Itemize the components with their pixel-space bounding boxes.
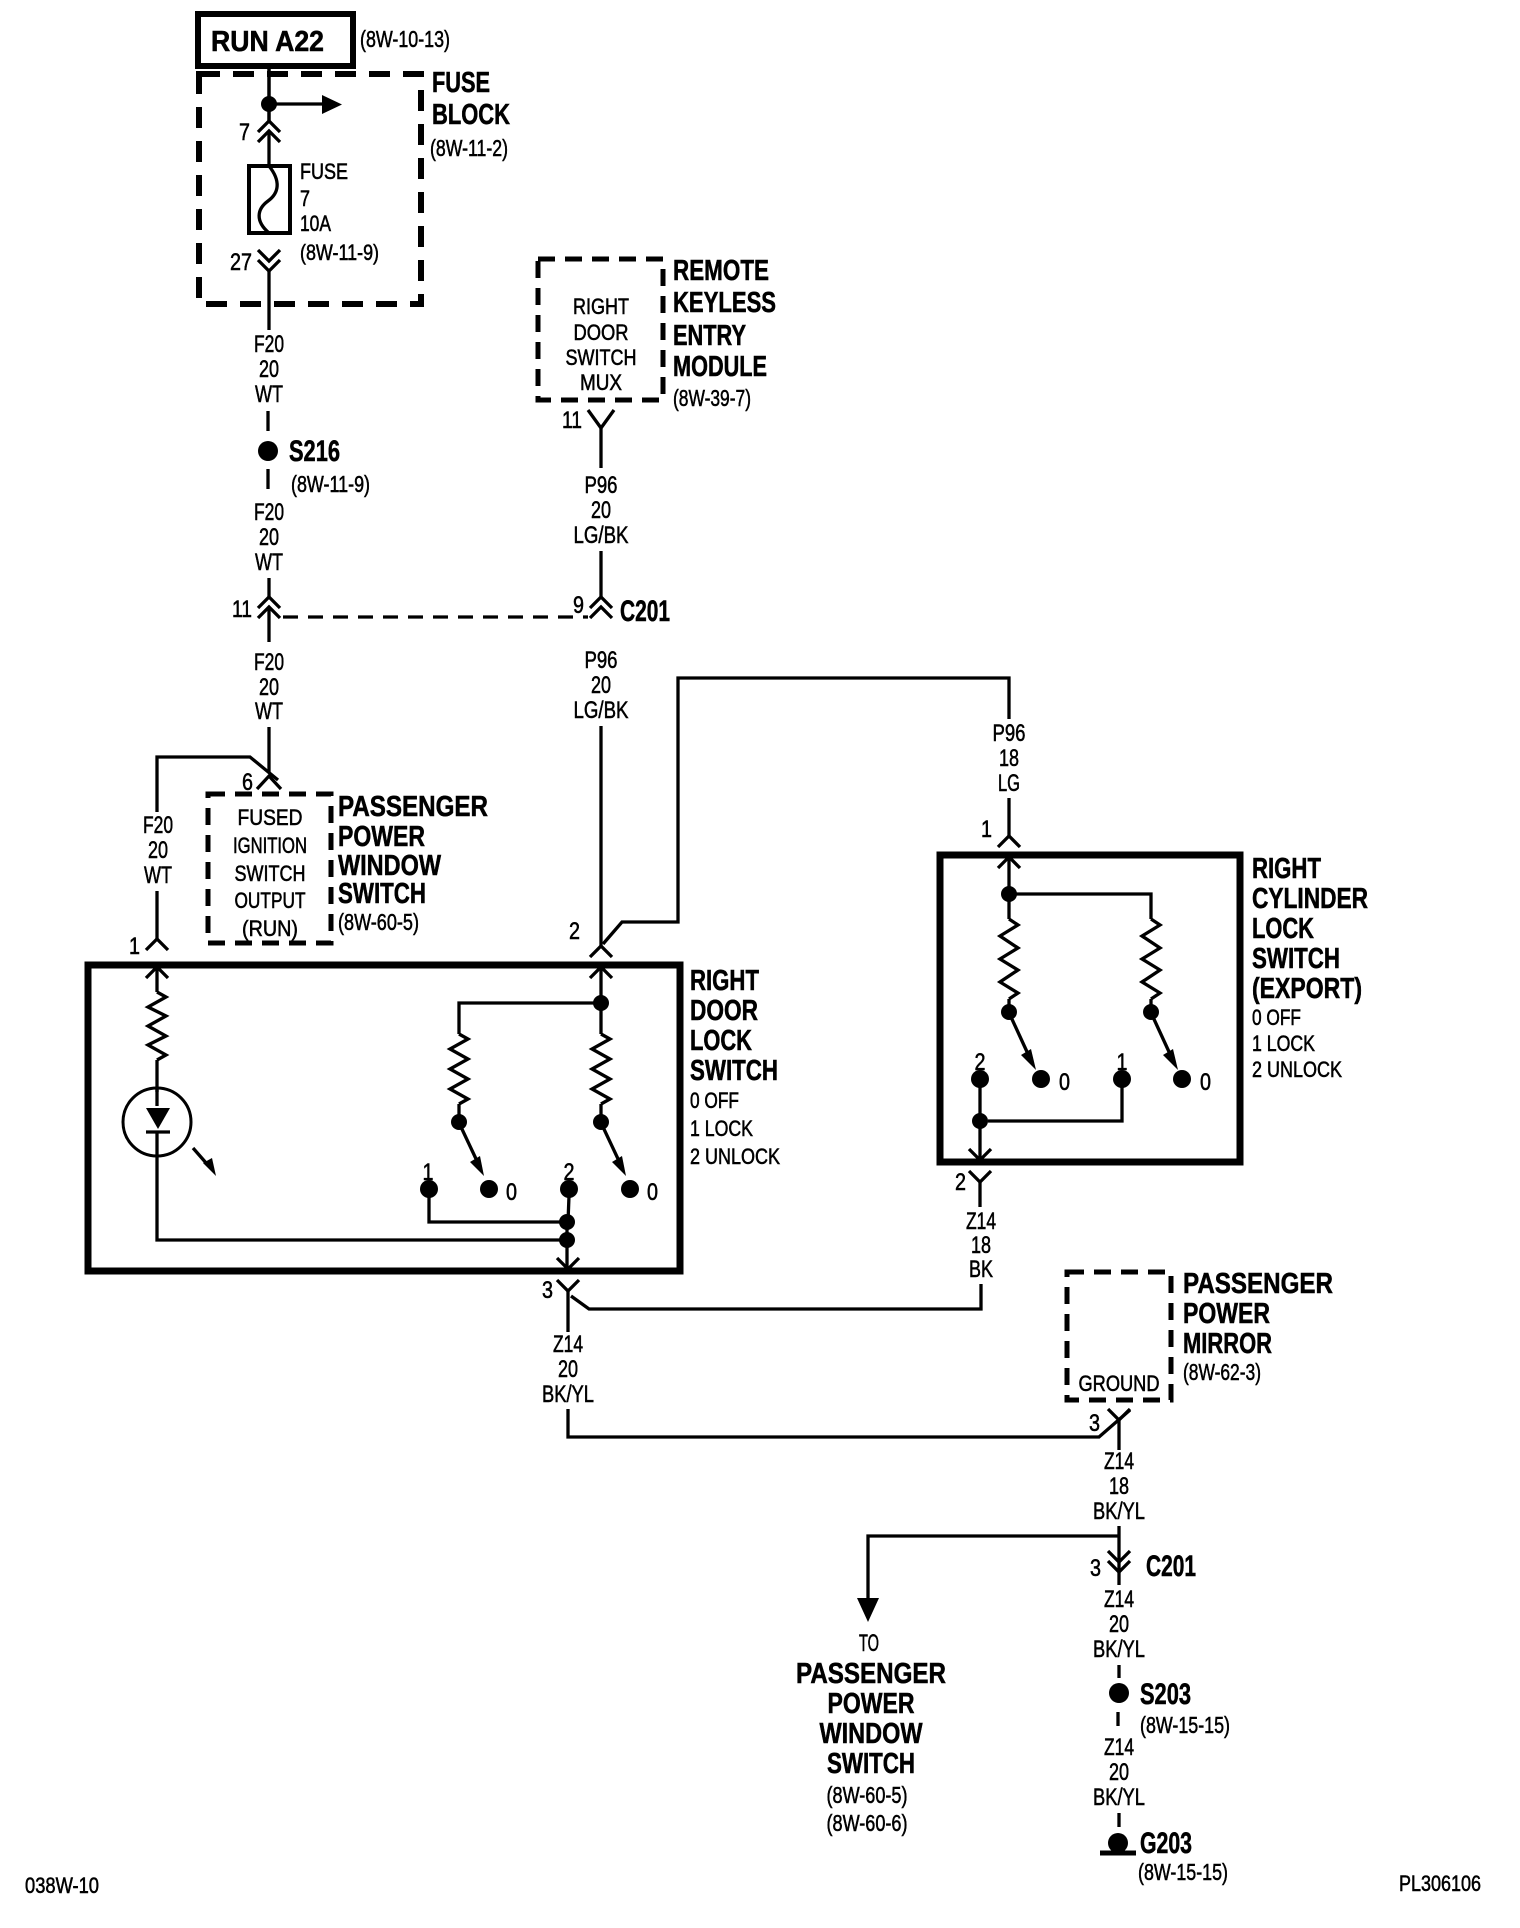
svg-text:OUTPUT: OUTPUT [235, 888, 306, 913]
svg-text:2: 2 [955, 1169, 966, 1196]
svg-text:SWITCH: SWITCH [338, 878, 426, 910]
svg-text:PASSENGER: PASSENGER [796, 1658, 946, 1690]
svg-text:BK: BK [969, 1256, 993, 1283]
svg-text:1: 1 [129, 933, 140, 960]
svg-text:F20: F20 [254, 331, 284, 358]
svg-text:(8W-62-3): (8W-62-3) [1183, 1359, 1261, 1385]
sheet number 038W-10 [25, 1873, 99, 1898]
svg-text:(8W-60-6): (8W-60-6) [827, 1810, 908, 1836]
wire label Z14 20 BK/YL [1093, 1734, 1145, 1811]
svg-text:LG/BK: LG/BK [574, 697, 629, 724]
svg-text:(8W-15-15): (8W-15-15) [1140, 1712, 1230, 1738]
svg-text:G203: G203 [1140, 1827, 1192, 1860]
svg-text:POWER: POWER [828, 1688, 915, 1720]
wire branch to left leg [157, 757, 278, 812]
svg-text:2: 2 [569, 918, 580, 945]
svg-text:SWITCH: SWITCH [566, 345, 637, 370]
reference (8W-15-15) [1140, 1712, 1230, 1738]
pin 7 connector [239, 119, 280, 146]
value label FUSE 7 10A (8W-11-9) [300, 159, 379, 265]
terminal 2 [560, 1159, 578, 1222]
terminal 0 (cylinder unlock) [1173, 1069, 1211, 1096]
pin 2 connector right door lock switch [569, 918, 612, 978]
wire dashed above S203 [1117, 1665, 1120, 1678]
wire cylinder switch return to pin 3 [571, 1284, 981, 1309]
svg-text:RIGHT: RIGHT [690, 965, 759, 997]
svg-text:(8W-60-5): (8W-60-5) [338, 909, 419, 935]
junction node cylinder [1001, 886, 1017, 902]
svg-text:3: 3 [1089, 1410, 1100, 1437]
node RUN A22 [198, 14, 353, 66]
wire junction to left resistor [459, 1003, 601, 1034]
svg-text:WT: WT [144, 862, 172, 889]
wire pin 2 to junction [599, 967, 602, 1003]
svg-text:PL306106: PL306106 [1399, 1871, 1481, 1896]
svg-text:BK/YL: BK/YL [1093, 1784, 1145, 1811]
svg-text:SWITCH: SWITCH [235, 861, 306, 886]
svg-text:IGNITION: IGNITION [233, 833, 307, 858]
resistor cylinder lock side [1000, 919, 1018, 999]
svg-text:038W-10: 038W-10 [25, 1873, 99, 1898]
svg-text:(8W-11-9): (8W-11-9) [291, 471, 370, 497]
svg-text:F20: F20 [254, 649, 284, 676]
svg-text:MIRROR: MIRROR [1183, 1328, 1272, 1360]
svg-text:ENTRY: ENTRY [673, 320, 746, 352]
svg-text:C201: C201 [620, 595, 670, 628]
svg-text:20: 20 [1109, 1759, 1129, 1786]
svg-text:10A: 10A [300, 211, 331, 236]
passenger power mirror dashed box [1067, 1272, 1171, 1400]
svg-text:(EXPORT): (EXPORT) [1252, 973, 1362, 1005]
svg-text:18: 18 [971, 1232, 991, 1259]
connector C201 pin 11 [232, 596, 280, 623]
svg-text:DOOR: DOOR [574, 320, 629, 345]
wire left leg to pin 1 [155, 891, 158, 939]
wire dashed below S216 [266, 469, 269, 489]
svg-text:POWER: POWER [338, 821, 425, 853]
dashed connector line C201 [283, 615, 588, 618]
svg-text:FUSE: FUSE [300, 159, 348, 184]
wire dashed above S216 [266, 411, 269, 431]
svg-text:POWER: POWER [1183, 1298, 1270, 1330]
svg-text:20: 20 [591, 497, 611, 524]
svg-text:7: 7 [300, 186, 310, 211]
label FUSE BLOCK (8W-11-2) [430, 67, 510, 161]
svg-text:20: 20 [259, 524, 279, 551]
svg-text:20: 20 [1109, 1611, 1129, 1638]
switch arm cylinder unlock [1143, 999, 1178, 1070]
svg-text:LG/BK: LG/BK [574, 522, 629, 549]
splice S203 [1109, 1678, 1191, 1711]
svg-text:(8W-10-13): (8W-10-13) [360, 26, 450, 52]
remote keyless entry module dashed box [538, 259, 663, 400]
wire fuse block to F20 label [267, 271, 270, 330]
svg-text:20: 20 [591, 672, 611, 699]
svg-text:(8W-60-5): (8W-60-5) [827, 1782, 908, 1808]
svg-text:0 OFF: 0 OFF [1252, 1005, 1301, 1030]
junction node cylinder common [972, 1113, 988, 1129]
svg-text:RUN A22: RUN A22 [211, 26, 324, 58]
wire to cylinder switch pin 1 [1007, 798, 1010, 836]
wire label F20 20 WT [254, 649, 284, 725]
svg-text:GROUND: GROUND [1079, 1371, 1160, 1396]
wire dashed below S203 [1116, 1712, 1119, 1726]
svg-text:Z14: Z14 [966, 1208, 996, 1235]
svg-text:0: 0 [506, 1179, 517, 1206]
switch arm cylinder lock [1001, 999, 1036, 1070]
ground G203 [1100, 1827, 1192, 1860]
svg-text:(RUN): (RUN) [242, 916, 298, 941]
terminal 1 [420, 1159, 562, 1222]
label C201 [1146, 1550, 1196, 1583]
svg-text:LOCK: LOCK [690, 1025, 752, 1057]
wire to C201 pin 3 [1117, 1526, 1120, 1585]
label TO PASSENGER POWER WINDOW SWITCH [796, 1630, 946, 1836]
label C201 [620, 595, 670, 628]
wire label P96 18 LG [993, 720, 1026, 797]
svg-text:MODULE: MODULE [673, 351, 767, 383]
svg-text:LG: LG [998, 770, 1020, 797]
label PASSENGER POWER WINDOW SWITCH (8W-60-5) [338, 791, 488, 935]
wire label Z14 20 BK/YL [1093, 1586, 1145, 1663]
svg-text:11: 11 [232, 596, 252, 623]
pin 11 connector of module [562, 407, 614, 468]
label RIGHT CYLINDER LOCK SWITCH (EXPORT) [1252, 853, 1368, 1082]
pin 27 connector [230, 249, 280, 276]
svg-text:3: 3 [542, 1277, 553, 1304]
svg-text:18: 18 [999, 745, 1019, 772]
svg-text:Z14: Z14 [1104, 1586, 1134, 1613]
right cylinder lock switch box [940, 855, 1240, 1162]
splice S216 [258, 435, 340, 468]
fused ignition switch output dashed box [208, 794, 331, 943]
pin 2 connector cylinder lock switch [955, 1149, 991, 1207]
svg-text:CYLINDER: CYLINDER [1252, 883, 1368, 915]
svg-text:BLOCK: BLOCK [432, 99, 510, 131]
wire pin3 to mirror ground [568, 1409, 1130, 1437]
svg-text:20: 20 [259, 674, 279, 701]
wire pin 1 to resistor [155, 967, 158, 992]
terminal 1 cylinder [988, 1049, 1131, 1121]
svg-text:(8W-11-9): (8W-11-9) [300, 240, 379, 265]
terminal 0 (unlock side) [621, 1179, 658, 1206]
arrow feed to other circuits [269, 95, 342, 114]
wire pin 1 into box [1007, 857, 1010, 894]
label REMOTE KEYLESS ENTRY MODULE (8W-39-7) [673, 255, 776, 411]
svg-text:FUSE: FUSE [432, 67, 490, 99]
connector C201 pin 3 [1090, 1551, 1130, 1582]
svg-text:LOCK: LOCK [1252, 913, 1314, 945]
LED arrow [193, 1148, 216, 1176]
arrow to passenger power window switch [857, 1598, 879, 1622]
svg-text:1 LOCK: 1 LOCK [1252, 1031, 1315, 1056]
svg-text:KEYLESS: KEYLESS [673, 287, 776, 319]
wire right resistor feed [599, 1003, 602, 1034]
svg-text:7: 7 [239, 119, 250, 146]
wire to left resistor [1007, 894, 1010, 919]
junction node [593, 995, 609, 1011]
svg-text:BK/YL: BK/YL [542, 1381, 594, 1408]
terminal 0 (cylinder lock) [1032, 1069, 1070, 1096]
svg-text:0: 0 [647, 1179, 658, 1206]
wire branch to passenger power window switch [868, 1536, 1119, 1600]
svg-text:BK/YL: BK/YL [1093, 1636, 1145, 1663]
wire label F20 20 WT [254, 499, 284, 576]
wire down to pin 6 [267, 727, 270, 773]
svg-text:PASSENGER: PASSENGER [338, 791, 488, 823]
reference (8W-15-15) [1138, 1859, 1228, 1885]
svg-text:PASSENGER: PASSENGER [1183, 1268, 1333, 1300]
connector C201 pin 9 [573, 592, 612, 619]
wire P96 down to right door lock switch pin 2 [599, 726, 602, 946]
wire label P96 20 LG/BK [574, 472, 629, 549]
wire branch to cylinder lock switch [603, 678, 1009, 944]
wire dashed above G203 [1117, 1813, 1120, 1827]
resistor illumination [148, 992, 166, 1060]
svg-text:9: 9 [573, 592, 584, 619]
junction node in fuse block [261, 96, 277, 112]
svg-text:20: 20 [148, 837, 168, 864]
right door lock switch box [88, 965, 680, 1271]
svg-text:WT: WT [255, 549, 283, 576]
svg-text:SWITCH: SWITCH [1252, 943, 1340, 975]
resistor cylinder unlock side [1142, 919, 1160, 999]
svg-text:Z14: Z14 [1104, 1734, 1134, 1761]
svg-text:SWITCH: SWITCH [827, 1748, 915, 1780]
fuse block dashed outline [199, 74, 421, 304]
svg-text:WT: WT [255, 698, 283, 725]
pin 1 connector cylinder lock switch [981, 816, 1020, 868]
junction node bus [559, 1232, 575, 1248]
wire common to pin 2 [978, 1121, 981, 1158]
wire to right resistor [1009, 894, 1151, 919]
wire to C201 pin 9 [599, 551, 602, 597]
sheet number PL306106 [1399, 1871, 1481, 1896]
svg-text:F20: F20 [254, 499, 284, 526]
LED lamp [123, 1088, 191, 1156]
svg-text:F20: F20 [143, 812, 173, 839]
svg-text:S216: S216 [289, 435, 340, 468]
wire label Z14 18 BK [966, 1208, 996, 1283]
pin 3 connector mirror [1089, 1409, 1130, 1450]
svg-text:27: 27 [230, 249, 252, 276]
terminal 2 cylinder [971, 1049, 989, 1121]
pin 1 connector right door lock switch [129, 933, 168, 978]
wire label Z14 20 BK/YL [542, 1331, 594, 1408]
svg-text:11: 11 [562, 407, 582, 434]
switch arm unlock [593, 1104, 626, 1176]
wire RUN A22 to node [267, 66, 271, 121]
svg-text:Z14: Z14 [553, 1331, 583, 1358]
svg-text:0: 0 [1059, 1069, 1070, 1096]
svg-text:0 OFF: 0 OFF [690, 1088, 739, 1113]
svg-text:2 UNLOCK: 2 UNLOCK [1252, 1057, 1342, 1082]
svg-text:RIGHT: RIGHT [1252, 853, 1321, 885]
wire LED to bottom bus [157, 1156, 561, 1240]
switch arm lock [451, 1104, 484, 1176]
pin 3 connector right door lock switch [542, 1258, 579, 1332]
svg-text:20: 20 [259, 356, 279, 383]
wire resistor to LED [155, 1060, 158, 1092]
reference (8W-11-9) [291, 471, 370, 497]
wire label Z14 18 BK/YL [1093, 1448, 1145, 1525]
svg-text:1: 1 [981, 816, 992, 843]
svg-text:18: 18 [1109, 1473, 1129, 1500]
pin 6 connector [242, 769, 281, 796]
reference (8W-10-13) [360, 26, 450, 52]
wire common to pin 3 [565, 1222, 568, 1267]
svg-text:DOOR: DOOR [690, 995, 758, 1027]
svg-text:WT: WT [255, 381, 283, 408]
svg-text:(8W-15-15): (8W-15-15) [1138, 1859, 1228, 1885]
svg-text:FUSED: FUSED [238, 805, 303, 830]
svg-text:Z14: Z14 [1104, 1448, 1134, 1475]
svg-text:REMOTE: REMOTE [673, 255, 769, 287]
svg-text:TO: TO [859, 1630, 879, 1657]
svg-text:C201: C201 [1146, 1550, 1196, 1583]
junction node common [559, 1214, 575, 1230]
wire label F20 20 WT [254, 331, 284, 408]
wire label P96 20 LG/BK below C201 [574, 647, 629, 724]
svg-text:0: 0 [1200, 1069, 1211, 1096]
label PASSENGER POWER MIRROR (8W-62-3) [1183, 1268, 1333, 1385]
svg-text:(8W-39-7): (8W-39-7) [673, 385, 751, 411]
svg-text:BK/YL: BK/YL [1093, 1498, 1145, 1525]
terminal 0 (lock side) [480, 1179, 517, 1206]
svg-text:3: 3 [1090, 1555, 1101, 1582]
resistor unlock side [592, 1034, 610, 1104]
svg-text:MUX: MUX [580, 370, 622, 395]
svg-text:2 UNLOCK: 2 UNLOCK [690, 1144, 780, 1169]
svg-text:1 LOCK: 1 LOCK [690, 1116, 753, 1141]
svg-text:P96: P96 [585, 647, 618, 674]
svg-text:WINDOW: WINDOW [820, 1718, 924, 1750]
svg-text:S203: S203 [1140, 1678, 1191, 1711]
svg-text:RIGHT: RIGHT [573, 294, 629, 319]
svg-text:(8W-11-2): (8W-11-2) [430, 135, 508, 161]
fuse F7 10A [249, 166, 290, 233]
wire below pin 11 [267, 608, 270, 642]
resistor lock side [450, 1034, 468, 1104]
svg-text:P96: P96 [993, 720, 1026, 747]
wire connector to fuse [267, 133, 270, 167]
svg-text:SWITCH: SWITCH [690, 1055, 778, 1087]
svg-text:P96: P96 [585, 472, 618, 499]
wire to C201 pin 11 [267, 578, 270, 597]
label RIGHT DOOR LOCK SWITCH [690, 965, 780, 1169]
svg-text:20: 20 [558, 1356, 578, 1383]
wire label F20 20 WT (left leg) [143, 812, 173, 889]
